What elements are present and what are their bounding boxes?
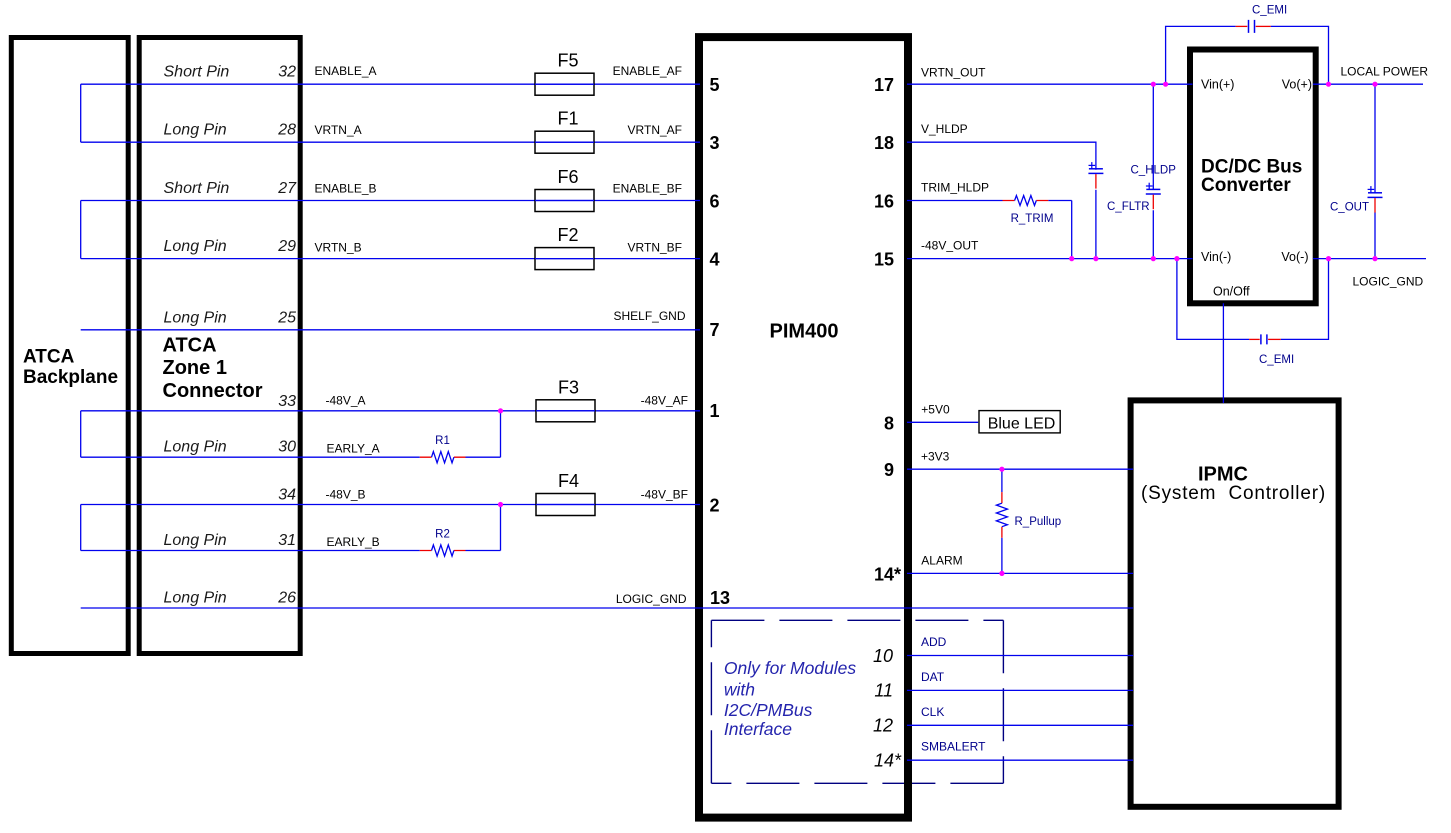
wire C_OUT branch vertical (LOCAL POWER to LOGIC_GND)	[1374, 84, 1376, 258]
wire VRTN_A net (backplane to fuse F1 to PIM pin 3)	[81, 141, 700, 143]
fuse F4	[536, 494, 595, 516]
svg-text:ENABLE_B: ENABLE_B	[315, 182, 377, 196]
wire VRTN_OUT net (PIM pin 17 to DC/DC Vin+)	[907, 83, 1193, 85]
svg-text:Converter: Converter	[1201, 175, 1291, 196]
svg-text:SHELF_GND: SHELF_GND	[613, 309, 685, 323]
junction -48V_A / EARLY_A	[498, 408, 503, 413]
wire -48V_A net (backplane pin33 to fuse F3 to PIM pin 1)	[81, 410, 700, 412]
ATCA Zone 1 Connector box	[139, 38, 300, 654]
svg-text:C_EMI: C_EMI	[1252, 5, 1287, 17]
svg-text:25: 25	[277, 309, 296, 326]
svg-text:+5V0: +5V0	[921, 403, 950, 417]
svg-text:ENABLE_AF: ENABLE_AF	[613, 64, 682, 78]
Blue LED indicator	[979, 411, 1060, 433]
wire ADD net (PIM pin 10 to IPMC)	[907, 655, 1133, 657]
svg-text:CLK: CLK	[921, 705, 944, 719]
svg-text:11: 11	[874, 681, 893, 701]
fuse F3	[536, 400, 595, 422]
svg-text:+3V3: +3V3	[921, 449, 950, 463]
svg-text:ALARM: ALARM	[921, 553, 962, 567]
wire DAT net (PIM pin 11 to IPMC)	[907, 689, 1133, 691]
wire C_HLDP bottom lead to -48V_OUT	[1095, 190, 1097, 259]
svg-text:V_HLDP: V_HLDP	[921, 122, 968, 136]
net segments through fuse bodies	[535, 84, 595, 504]
svg-text:Long Pin: Long Pin	[164, 238, 227, 255]
svg-text:VRTN_B: VRTN_B	[315, 241, 362, 255]
svg-text:Only for Modules: Only for Modules	[724, 658, 857, 678]
svg-text:(System Controller): (System Controller)	[1141, 483, 1326, 504]
svg-text:34: 34	[278, 487, 296, 504]
resistor R_TRIM	[1003, 200, 1049, 202]
svg-text:16: 16	[874, 192, 894, 212]
svg-text:-48V_AF: -48V_AF	[641, 393, 688, 407]
wire LOCAL POWER net (DC/DC Vo+ rightwards)	[1313, 83, 1423, 85]
svg-text:-48V_A: -48V_A	[326, 393, 366, 407]
svg-text:Long Pin: Long Pin	[164, 122, 227, 139]
svg-text:SMBALERT: SMBALERT	[921, 740, 986, 754]
capacitor C_HLDP	[1089, 162, 1096, 168]
svg-text:ENABLE_A: ENABLE_A	[315, 64, 377, 78]
svg-text:Connector: Connector	[163, 380, 263, 402]
svg-text:Long Pin: Long Pin	[164, 309, 227, 326]
svg-text:9: 9	[884, 460, 894, 480]
wire backplane loop A vertical (pin32 to pin28)	[80, 84, 82, 142]
svg-text:Long Pin: Long Pin	[164, 590, 227, 607]
ATCA Backplane box	[11, 38, 128, 654]
DC/DC Bus Converter U2	[1190, 50, 1316, 304]
svg-text:27: 27	[277, 180, 297, 197]
svg-text:ADD: ADD	[921, 635, 947, 649]
svg-text:14*: 14*	[874, 751, 902, 771]
svg-text:31: 31	[278, 532, 296, 549]
wire +3V3 net (PIM pin 9 to IPMC)	[907, 468, 1133, 470]
svg-text:VRTN_AF: VRTN_AF	[628, 123, 682, 137]
svg-text:12: 12	[873, 716, 893, 736]
wire EARLY_B net (backplane pin31 to resistor R2)	[81, 550, 420, 552]
wire backplane loop C vertical (pin33 to pin30)	[80, 411, 82, 457]
svg-text:PIM400: PIM400	[770, 321, 839, 343]
wire R_TRIM output to -48V_OUT	[1048, 201, 1071, 259]
wire C_EMI top loop	[1166, 26, 1329, 84]
svg-text:13: 13	[710, 588, 730, 608]
svg-text:Vin(+): Vin(+)	[1201, 78, 1234, 92]
svg-text:C_OUT: C_OUT	[1330, 202, 1369, 214]
junction VRTN_OUT / C_EMI top left	[1163, 82, 1168, 87]
svg-text:ATCA: ATCA	[163, 335, 217, 357]
svg-text:F5: F5	[557, 51, 578, 71]
svg-text:15: 15	[874, 250, 894, 270]
svg-text:Vo(+): Vo(+)	[1282, 78, 1312, 92]
svg-text:28: 28	[277, 122, 296, 139]
resistor R_Pullup	[1001, 492, 1003, 538]
svg-text:VRTN_A: VRTN_A	[315, 123, 362, 137]
svg-text:F1: F1	[557, 109, 578, 129]
svg-text:F4: F4	[558, 471, 579, 491]
svg-text:ATCA: ATCA	[23, 347, 75, 368]
svg-text:C_EMI: C_EMI	[1259, 354, 1294, 366]
junction ALARM / R_Pullup	[999, 571, 1004, 576]
svg-text:EARLY_A: EARLY_A	[327, 442, 380, 456]
svg-text:14*: 14*	[874, 564, 901, 584]
svg-text:C_FLTR: C_FLTR	[1107, 201, 1150, 213]
dashed box: Only for Modules with I2C/PMBus Interface	[711, 620, 1003, 783]
wire CLK net (PIM pin 12 to IPMC)	[907, 724, 1133, 726]
svg-text:Short Pin: Short Pin	[164, 180, 230, 197]
svg-text:Long Pin: Long Pin	[164, 439, 227, 456]
wire ENABLE_A net (backplane to fuse F5 to PIM pin 5)	[81, 83, 700, 85]
capacitor C_FLTR	[1146, 183, 1153, 189]
wire ENABLE_B net (backplane to fuse F6 to PIM pin 6)	[81, 200, 700, 202]
svg-text:Backplane: Backplane	[23, 367, 118, 388]
svg-text:5: 5	[710, 75, 720, 95]
svg-text:1: 1	[710, 401, 720, 421]
wire -48V_B net (backplane pin34 to fuse F4 to PIM pin 2)	[81, 504, 700, 506]
capacitor C_EMI (bottom)	[1249, 338, 1260, 340]
svg-text:LOCAL POWER: LOCAL POWER	[1341, 65, 1429, 79]
svg-text:6: 6	[710, 192, 720, 212]
wire R_Pullup branch vertical	[1001, 469, 1003, 573]
svg-text:On/Off: On/Off	[1213, 285, 1250, 299]
junction LOCAL_POWER / C_OUT	[1372, 82, 1377, 87]
svg-text:29: 29	[277, 238, 296, 255]
wire V_HLDP net (PIM pin 18 down to C_HLDP)	[907, 142, 1096, 170]
svg-text:LOGIC_GND: LOGIC_GND	[1353, 275, 1424, 289]
svg-text:LOGIC_GND: LOGIC_GND	[616, 592, 687, 606]
svg-text:R_Pullup: R_Pullup	[1015, 516, 1062, 528]
wire LOGIC_GND net (backplane pin26 through PIM pin 13 to IPMC)	[81, 607, 1133, 609]
svg-text:ENABLE_BF: ENABLE_BF	[613, 182, 682, 196]
svg-text:F3: F3	[558, 377, 579, 397]
wire EARLY_A net (backplane pin30 to resistor R1)	[81, 456, 420, 458]
svg-text:VRTN_OUT: VRTN_OUT	[921, 66, 986, 80]
svg-text:I2C/PMBus: I2C/PMBus	[724, 700, 813, 720]
wire On/Off net (DC/DC to IPMC)	[1222, 303, 1224, 403]
svg-text:26: 26	[277, 590, 296, 607]
wire VRTN_B net (backplane to fuse F2 to PIM pin 4)	[81, 258, 700, 260]
capacitor C_EMI (top)	[1236, 25, 1248, 27]
svg-text:R2: R2	[435, 529, 450, 541]
svg-text:VRTN_BF: VRTN_BF	[628, 241, 682, 255]
wire backplane loop B vertical (pin27 to pin29)	[80, 201, 82, 259]
svg-text:Zone 1: Zone 1	[163, 357, 227, 379]
junction LOGIC_GND / C_EMI bottom right	[1326, 256, 1331, 261]
svg-text:2: 2	[710, 496, 720, 516]
svg-text:C_HLDP: C_HLDP	[1131, 165, 1177, 177]
wire EARLY_A to -48V_A junction vertical	[466, 411, 501, 457]
fuse F2	[535, 248, 594, 270]
junction -48V_OUT / C_HLDP	[1093, 256, 1098, 261]
svg-text:32: 32	[278, 64, 296, 81]
svg-text:30: 30	[278, 439, 296, 456]
wire SHELF_GND net (backplane pin25 to PIM pin 7)	[81, 329, 700, 331]
svg-text:-48V_BF: -48V_BF	[641, 488, 688, 502]
wire C_EMI bottom loop	[1177, 259, 1329, 340]
svg-text:33: 33	[278, 393, 296, 410]
svg-text:Short Pin: Short Pin	[164, 64, 230, 81]
wire ALARM net (PIM pin 14* to IPMC)	[907, 572, 1133, 574]
junction +3V3 / R_Pullup	[999, 467, 1004, 472]
fuse F6	[535, 190, 594, 212]
wire LOGIC_GND output net (DC/DC Vo- rightwards)	[1313, 258, 1426, 260]
wire backplane loop D vertical (pin34 to pin31)	[80, 505, 82, 551]
junction VRTN_OUT / C_FLTR	[1151, 82, 1156, 87]
wire EARLY_B to -48V_B junction vertical	[466, 505, 501, 551]
resistor R1	[420, 456, 466, 458]
svg-text:8: 8	[884, 413, 894, 433]
svg-text:-48V_OUT: -48V_OUT	[921, 239, 979, 253]
svg-text:18: 18	[874, 133, 894, 153]
PIM400 module U1	[699, 37, 908, 818]
fuse F5	[535, 73, 594, 95]
junction LOGIC_GND / C_OUT	[1372, 256, 1377, 261]
svg-text:Vo(-): Vo(-)	[1281, 250, 1308, 264]
svg-text:Blue LED: Blue LED	[988, 416, 1056, 433]
junction -48V_OUT / C_EMI bottom left	[1174, 256, 1179, 261]
resistor R2	[420, 550, 466, 552]
svg-text:F6: F6	[557, 167, 578, 187]
junction -48V_OUT / C_FLTR	[1151, 256, 1156, 261]
svg-text:17: 17	[874, 75, 894, 95]
junction -48V_OUT / R_TRIM	[1069, 256, 1074, 261]
wire SMBALERT net (PIM pin 14* to IPMC)	[907, 759, 1133, 761]
wire +5V0 net (PIM pin 8 to Blue LED)	[907, 421, 978, 423]
svg-text:TRIM_HLDP: TRIM_HLDP	[921, 181, 989, 195]
svg-text:with: with	[724, 680, 755, 700]
svg-text:R_TRIM: R_TRIM	[1011, 213, 1054, 225]
svg-text:10: 10	[873, 646, 893, 666]
svg-text:DAT: DAT	[921, 670, 945, 684]
wire C_FLTR branch vertical (VRTN_OUT to -48V_OUT)	[1152, 84, 1154, 258]
svg-text:F2: F2	[557, 225, 578, 245]
svg-text:4: 4	[710, 250, 720, 270]
svg-text:Long Pin: Long Pin	[164, 532, 227, 549]
svg-text:-48V_B: -48V_B	[326, 488, 366, 502]
fuse F1	[535, 131, 594, 153]
junction -48V_B / EARLY_B	[498, 502, 503, 507]
svg-text:EARLY_B: EARLY_B	[327, 535, 380, 549]
svg-text:3: 3	[710, 133, 720, 153]
svg-text:R1: R1	[435, 435, 450, 447]
wire TRIM_HLDP net (PIM pin 16 to R_TRIM)	[907, 200, 1003, 202]
svg-text:Vin(-): Vin(-)	[1201, 250, 1231, 264]
IPMC (System Controller) box	[1131, 400, 1339, 806]
junction LOCAL_POWER / C_EMI top right	[1326, 82, 1331, 87]
wire -48V_OUT net (PIM pin 15 to DC/DC Vin-)	[907, 258, 1193, 260]
svg-text:Interface: Interface	[724, 719, 792, 739]
capacitor C_OUT	[1368, 186, 1375, 192]
svg-text:7: 7	[710, 320, 720, 340]
